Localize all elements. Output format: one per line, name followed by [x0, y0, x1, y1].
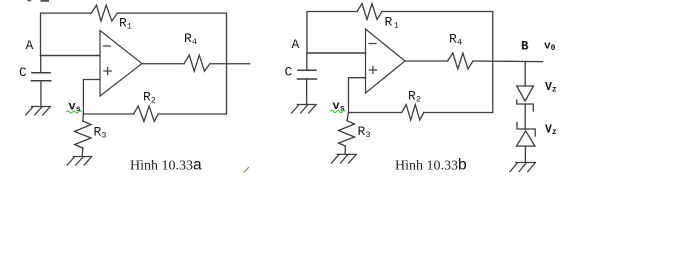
ground under C (left): [26, 107, 51, 116]
wire bottom feedback right part (right): [424, 112, 493, 114]
zener diode D1: [517, 86, 534, 101]
wire top-left segment (right ckt): [307, 12, 357, 54]
node A wire to inverting input: [41, 55, 101, 57]
wire non-inverting input stub: [83, 80, 100, 115]
squiggle under vs (left): [67, 111, 82, 113]
svg-text:Hình 10.33b: Hình 10.33b: [395, 157, 467, 174]
svg-text:A: A: [26, 38, 34, 53]
ground under zeners: [510, 163, 535, 172]
wire Vs node down to R3: [82, 114, 85, 121]
stray mark top edge: [28, 0, 31, 2]
resistor R2 (left): [134, 106, 159, 122]
wire capacitor to ground: [40, 81, 42, 107]
svg-text:C: C: [285, 65, 293, 80]
zener D2 cathode bar: [517, 123, 535, 137]
capacitor C (left) bottom plate: [31, 80, 50, 82]
op-amp U1 triangle: [100, 31, 142, 97]
resistor R2 (right): [402, 105, 424, 121]
wire Vs node down to R3 (right): [347, 113, 349, 121]
wire node A down to capacitor: [40, 56, 42, 73]
svg-text:B: B: [521, 40, 529, 54]
wire top-right segment (right ckt): [382, 12, 493, 113]
wire non-inverting input stub (right): [349, 78, 366, 113]
stray slash mark: [244, 167, 250, 173]
wire D2 to ground: [524, 146, 526, 162]
resistor R3 (right, vertical): [339, 121, 355, 146]
wire bottom feedback right part: [158, 113, 226, 115]
svg-text:A: A: [292, 37, 300, 52]
wire output to R4 (right): [405, 60, 448, 62]
wire between zeners: [524, 104, 526, 129]
svg-text:C: C: [19, 65, 27, 80]
op-amp U2 plus sign: [369, 66, 376, 73]
capacitor C (right) top plate: [298, 69, 316, 71]
ground under R3 (right): [332, 154, 357, 163]
op-amp U2 triangle: [366, 29, 406, 93]
ground under R3 (left): [67, 157, 91, 166]
wire top-left segment (node A rail to R1): [41, 13, 92, 55]
wire R3 to ground (right): [344, 146, 346, 154]
op-amp U1 minus sign: [104, 45, 111, 47]
wire zener branch from output: [524, 62, 526, 86]
zener diode D2: [517, 131, 535, 146]
stray mark top edge 2: [42, 0, 49, 2]
op-amp U1 plus sign: [104, 67, 111, 74]
squiggle under vs (right): [331, 110, 346, 112]
wire R4 to output rail and stub: [210, 63, 250, 65]
node A wire to inverting input (right): [307, 52, 366, 54]
wire R3 to ground: [81, 148, 84, 157]
wire bottom feedback left part: [83, 113, 133, 115]
wire top-right segment (R1 to output rail): [117, 13, 226, 114]
capacitor C (left) top plate: [32, 72, 50, 74]
wire capacitor to ground (right): [306, 79, 308, 105]
resistor R1 (left): [91, 5, 117, 21]
wire output to R4: [142, 63, 184, 65]
resistor R1 (right): [357, 4, 382, 20]
ground under C (right): [292, 105, 317, 114]
svg-text:Hình 10.33a: Hình 10.33a: [130, 157, 202, 174]
wire node A down to capacitor (right): [306, 53, 308, 70]
resistor R4 (left): [184, 55, 210, 71]
zener D1 cathode bar: [517, 100, 534, 111]
resistor R4 (right): [448, 53, 473, 69]
resistor R3 (left, vertical): [75, 121, 91, 148]
wire bottom feedback left part (right): [349, 112, 402, 114]
capacitor C (right) bottom plate: [298, 78, 317, 80]
wire R4 to node B stub: [473, 60, 543, 63]
op-amp U2 minus sign: [369, 43, 376, 45]
